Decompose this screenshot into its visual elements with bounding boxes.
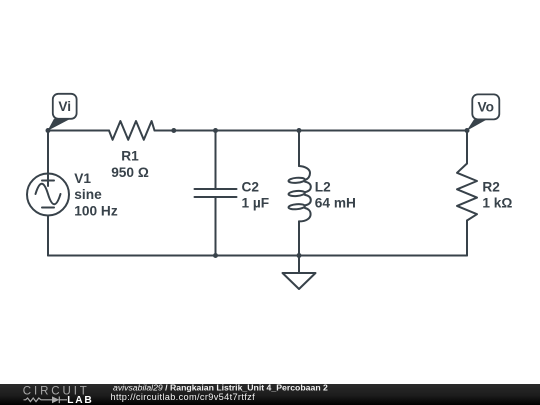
node flag Vi: [48, 94, 77, 131]
wire: L2 bottom terminal down to bottom net: [298, 221, 300, 255]
svg-text:Vo: Vo: [478, 100, 494, 115]
svg-text:Vi: Vi: [58, 99, 71, 114]
svg-text:R2: R2: [482, 179, 500, 194]
wire: top net down to L2 top terminal: [298, 131, 300, 167]
wire: top net down to C2 top plate: [215, 131, 217, 190]
svg-text:1 kΩ: 1 kΩ: [482, 196, 512, 211]
resistor R1: [109, 121, 155, 140]
junction dot top net / C2 branch: [213, 128, 218, 133]
junction dot top net / L2 branch: [297, 128, 302, 133]
junction dot at node Vi: [46, 128, 51, 133]
wire: node Vo down to R2 top terminal: [466, 131, 468, 164]
junction dot bottom net / ground: [297, 253, 302, 258]
wire bottom net (ground net): [48, 255, 467, 257]
svg-text:avivsabilal29 / Rangkaian List: avivsabilal29 / Rangkaian Listrik_Unit 4…: [113, 383, 328, 393]
logo schematic: diode triangle: [52, 396, 59, 403]
svg-text:R1: R1: [121, 149, 139, 164]
junction dot on top net right of R1: [171, 128, 176, 133]
footer bar: [0, 384, 540, 405]
wire: R2 bottom terminal down to bottom net: [466, 221, 468, 256]
logo schematic: diode cathode bar and wire: [59, 397, 67, 404]
wire top net: node Vi to R1 left terminal: [48, 130, 109, 132]
svg-text:100 Hz: 100 Hz: [74, 203, 118, 218]
svg-text:1 µF: 1 µF: [242, 196, 270, 211]
svg-text:64 mH: 64 mH: [315, 196, 356, 211]
resistor R2: [457, 164, 477, 221]
svg-text:950 Ω: 950 Ω: [111, 165, 149, 180]
svg-text:C2: C2: [242, 179, 260, 194]
wire: node Vi down to V1 + terminal: [47, 131, 49, 174]
logo schematic: resistor zigzag and wire: [24, 398, 53, 402]
svg-text:L2: L2: [315, 179, 331, 194]
wire: V1 - terminal down to bottom net: [47, 216, 49, 256]
capacitor C2: [195, 189, 237, 197]
ground: [283, 273, 316, 289]
node flag Vo: [467, 94, 500, 130]
svg-text:LAB: LAB: [67, 395, 93, 405]
svg-text:V1: V1: [74, 171, 91, 186]
wire top net: R1 right terminal to node Vo: [155, 130, 468, 132]
svg-text:http://circuitlab.com/cr9v54t7: http://circuitlab.com/cr9v54t7rtfzf: [111, 392, 256, 402]
inductor L2: [288, 166, 310, 221]
junction dot bottom net / C2 branch: [213, 253, 218, 258]
svg-text:sine: sine: [74, 187, 102, 202]
junction dot at node Vo: [465, 128, 470, 133]
wire: C2 bottom plate down to bottom net: [215, 197, 217, 256]
voltage source V1 (sine source): [27, 174, 69, 216]
wire: ground stub: [298, 256, 300, 273]
